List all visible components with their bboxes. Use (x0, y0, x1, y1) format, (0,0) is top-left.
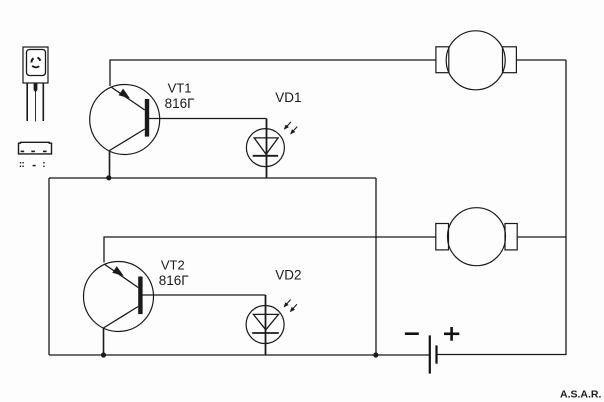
photodiode VD2 (246, 300, 297, 344)
battery GB1 (430, 335, 437, 373)
transistor VT1 (90, 85, 160, 155)
wire VD2 vertical (265, 295, 267, 355)
svg-text:816Г: 816Г (159, 273, 190, 288)
svg-text:VD1: VD1 (275, 90, 301, 105)
wire motor M1 to right rail (517, 59, 567, 61)
wire motor M2 right lead (517, 236, 566, 238)
battery plus sign (444, 327, 459, 341)
wire middle rail (49, 177, 376, 179)
svg-text:VT2: VT2 (161, 257, 185, 272)
junction dot VT1 collector on middle rail (106, 175, 111, 180)
motor M1 (436, 31, 517, 90)
motor M2 (436, 208, 517, 266)
wire battery to bottom right corner (437, 354, 566, 356)
junction dot VT2 collector on bottom rail (101, 352, 106, 357)
wire VT2 emitter riser and rail to motor M2 (104, 237, 436, 263)
battery minus sign (405, 332, 419, 335)
wire VT2 collector drop (103, 328, 105, 355)
photodiode VD1 (246, 122, 297, 167)
svg-text:A.S.A.R.: A.S.A.R. (560, 389, 602, 401)
svg-text:816Г: 816Г (165, 96, 196, 111)
wire bottom rail (49, 354, 429, 356)
wire VT1 emitter riser and top rail to motor M1 (110, 60, 436, 86)
wire right rail (565, 60, 567, 355)
wire VT2 base lead to VD2 (143, 294, 266, 296)
svg-text:VD2: VD2 (275, 268, 301, 283)
transistor package bottom view (19, 142, 52, 167)
wire left rail (48, 178, 50, 355)
svg-text:VT1: VT1 (168, 80, 192, 95)
transistor package front view (23, 47, 48, 122)
junction dot link wire on bottom rail (373, 352, 378, 357)
wire VT1 base lead to VD1 (149, 118, 267, 120)
wire VT1 collector drop (109, 151, 111, 179)
transistor VT2 (84, 262, 154, 332)
wire vertical link middle rail to bottom rail (375, 178, 377, 355)
wire VD1 vertical (266, 119, 268, 179)
